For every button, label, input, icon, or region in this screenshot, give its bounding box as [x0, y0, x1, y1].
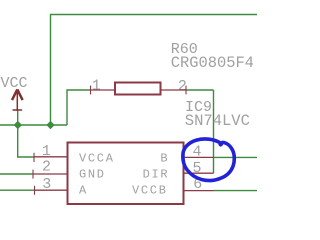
svg-text:CRG0805F4: CRG0805F4	[171, 54, 254, 72]
power symbol VCC arrow	[12, 89, 23, 111]
svg-text:SN74LVC: SN74LVC	[185, 112, 250, 130]
junction node B	[46, 121, 54, 129]
svg-text:3: 3	[42, 176, 51, 193]
svg-text:B: B	[160, 152, 169, 166]
IC IC9 body	[68, 143, 184, 205]
resistor pin 1 tick	[90, 86, 92, 95]
wire top horizontal VCC net	[50, 14, 257, 16]
wire to IC pin 3 from left edge	[0, 189, 35, 191]
wire from resistor pin 2 to vertical drop	[186, 89, 214, 91]
IC pin 3 line	[35, 189, 67, 191]
junction node A	[14, 121, 22, 129]
IC pin 3 tick	[34, 186, 36, 195]
IC pin 1 line	[34, 156, 67, 158]
wire from VCC symbol stem to junction	[17, 111, 19, 125]
svg-text:VCC: VCC	[1, 75, 28, 92]
svg-text:GND: GND	[79, 168, 106, 182]
IC pin 6 line	[184, 190, 214, 192]
svg-text:1: 1	[92, 78, 101, 95]
wire from IC pin 4 to right edge	[214, 156, 258, 158]
resistor pin 2 line	[161, 89, 186, 91]
svg-text:VCCB: VCCB	[132, 184, 168, 198]
svg-text:4: 4	[192, 143, 201, 160]
svg-text:VCCA: VCCA	[79, 152, 115, 166]
resistor R60 body	[115, 83, 161, 95]
wire from junction down to IC pin 1	[18, 125, 34, 157]
svg-text:DIR: DIR	[143, 168, 170, 182]
annotation: blue hand-drawn circle around pins 4 and 5	[183, 139, 234, 181]
wire horizontal junction row	[0, 124, 67, 126]
IC pin 2 line	[33, 173, 67, 175]
IC pin 4 line	[184, 156, 214, 158]
IC pin 1 tick	[33, 153, 35, 162]
wire to IC pin 2 from left edge	[0, 173, 33, 175]
svg-text:2: 2	[42, 158, 51, 175]
IC pin 5 line	[184, 172, 214, 174]
wire vertical drop to IC pin 5	[213, 90, 215, 173]
wire riser to resistor pin 1	[67, 90, 91, 125]
resistor pin 2 tick	[185, 86, 187, 95]
IC pin 2 tick	[32, 170, 34, 179]
resistor pin 1 line	[91, 89, 115, 91]
wire vertical from top rail down to junction row	[50, 15, 52, 126]
wire from IC pin 6 to right edge	[214, 190, 258, 192]
svg-text:A: A	[79, 184, 88, 198]
